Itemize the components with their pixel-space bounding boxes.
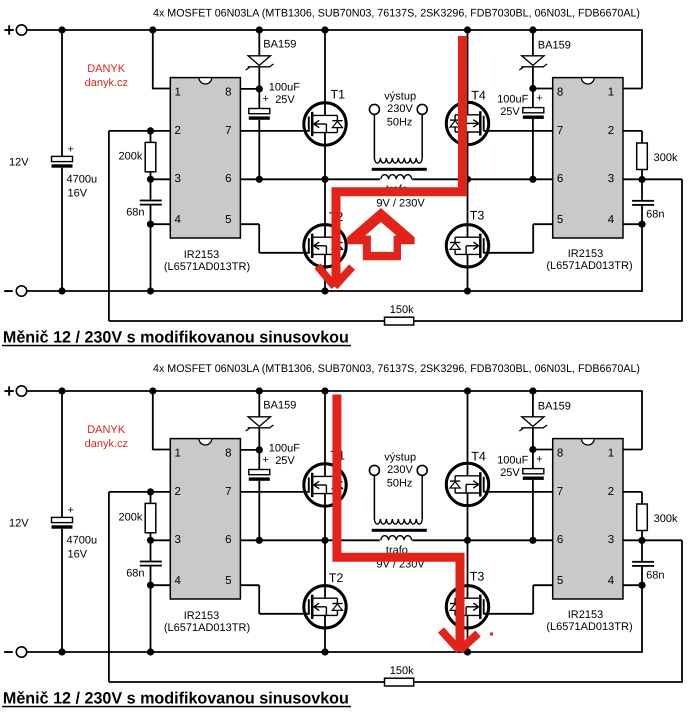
svg-text:(L6571AD013TR): (L6571AD013TR) [164, 622, 250, 634]
node top rail / T4 drain B [464, 387, 471, 394]
svg-text:IR2153: IR2153 [184, 610, 219, 622]
svg-text:8: 8 [557, 87, 563, 99]
wire pin3 right IC B [623, 539, 682, 541]
svg-text:3: 3 [175, 173, 181, 185]
svg-text:T4: T4 [471, 450, 486, 464]
svg-text:230V: 230V [387, 103, 413, 115]
wire BA159 right anode B [532, 391, 534, 417]
capacitor C 68n right B [632, 561, 654, 567]
wire pin3 left IC B [151, 539, 171, 541]
node pin4 / 68n A [147, 221, 154, 228]
diode D BA159 right B [519, 417, 547, 431]
wire T1 source A [324, 133, 326, 180]
node pin8 right / diode / 100uF B [529, 446, 536, 453]
wire secondary left leg A [373, 114, 375, 158]
node pin4 right / 68n A [638, 221, 645, 228]
svg-text:1: 1 [608, 448, 614, 460]
svg-text:68n: 68n [126, 207, 144, 219]
node top rail / BA159 right B [529, 387, 536, 394]
wire 200k bottom lead A [150, 172, 152, 180]
diode D BA159 left A [246, 56, 274, 70]
svg-text:8: 8 [557, 448, 563, 460]
wire battery column bottom B [61, 529, 63, 652]
wire 100uF right bottom lead B [532, 480, 534, 540]
node pin2 / 200k B [147, 488, 154, 495]
wire 68n top lead left B [150, 540, 152, 560]
wire pin1 right IC to rail A [623, 30, 642, 89]
wire secondary right leg A [421, 114, 423, 158]
node pin8 left / diode / 100uF A [256, 85, 263, 92]
wire top +12V rail B [27, 390, 643, 392]
wire T1 source B [324, 494, 326, 541]
wire 100uF right bottom lead A [532, 119, 534, 179]
svg-text:6: 6 [557, 534, 563, 546]
node top rail / pin1 column B [149, 387, 156, 394]
svg-text:IR2153: IR2153 [184, 249, 219, 261]
svg-text:100uF: 100uF [269, 82, 300, 94]
svg-text:+: + [536, 453, 542, 465]
svg-text:4: 4 [175, 214, 182, 226]
node bottom rail / T3 source B [464, 648, 471, 655]
transistor T1 MOSFET B [304, 464, 346, 506]
resistor R 300k A [637, 143, 648, 170]
svg-text:T2: T2 [329, 571, 344, 585]
wire T2 source B [324, 615, 326, 652]
svg-text:25V: 25V [500, 106, 520, 118]
transistor T3 MOSFET A [446, 225, 488, 267]
svg-text:danyk.cz: danyk.cz [85, 438, 128, 450]
svg-text:200k: 200k [119, 511, 143, 523]
node mid rail / T1 T2 A [321, 176, 328, 183]
svg-text:230V: 230V [387, 464, 413, 476]
node top rail / BA159 left B [256, 387, 263, 394]
svg-text:50Hz: 50Hz [387, 116, 413, 128]
svg-text:6: 6 [557, 173, 563, 185]
svg-text:T3: T3 [470, 569, 485, 583]
wire BA159 left cathode A [258, 67, 260, 109]
svg-text:3: 3 [175, 534, 181, 546]
svg-text:4: 4 [175, 575, 182, 587]
wire T2 drain A [324, 179, 326, 237]
transformer TR secondary winding A [374, 158, 422, 163]
svg-text:BA159: BA159 [263, 39, 296, 51]
wire pin1 left IC to rail B [153, 391, 171, 450]
node mid rail / 100uF right A [529, 176, 536, 183]
svg-text:16V: 16V [68, 549, 88, 561]
transistor T4 MOSFET B [446, 463, 488, 505]
op-amp driver IC IR2153 right A [553, 78, 623, 238]
wire mid rail right segment A [412, 178, 552, 180]
resistor R 200k B [145, 503, 156, 532]
node bottom rail / battery A [58, 287, 65, 294]
terminal output right A [417, 104, 427, 114]
svg-text:3: 3 [608, 534, 614, 546]
svg-text:2: 2 [175, 486, 181, 498]
node bottom rail / T3 source A [464, 287, 471, 294]
svg-text:7: 7 [225, 486, 231, 498]
svg-text:6: 6 [225, 173, 231, 185]
wire pin4 column to bottom rail A [150, 224, 152, 291]
capacitor C 100uF right A [523, 108, 544, 119]
svg-text:1: 1 [175, 87, 181, 99]
svg-text:68n: 68n [646, 570, 664, 582]
svg-text:+: + [68, 505, 74, 517]
wire T1 drain A [324, 30, 326, 115]
capacitor C 68n left B [140, 561, 162, 567]
wire pin4 right IC A [623, 223, 642, 225]
svg-text:4700u: 4700u [67, 174, 98, 186]
svg-text:150k: 150k [390, 304, 414, 316]
node pin3 / 200k / 68n B [147, 537, 154, 544]
node top rail / T1 drain B [321, 387, 328, 394]
wire 68n right bottom lead B [641, 567, 643, 585]
wire BA159 left anode A [258, 30, 260, 56]
svg-text:+: + [68, 144, 74, 156]
wire T2 source A [324, 254, 326, 291]
capacitor C 100uF left B [249, 470, 270, 481]
wire 150k row right B [414, 681, 683, 683]
wire right edge vertical A [681, 179, 683, 321]
wire bottom 0V rail A [27, 290, 643, 292]
wire 200k top lead B [150, 492, 152, 504]
node bottom rail / pin4 column A [147, 287, 154, 294]
node pin8 left / diode / 100uF B [256, 446, 263, 453]
svg-text:300k: 300k [654, 513, 678, 525]
wire pin8 left IC B [240, 449, 259, 451]
svg-text:8: 8 [225, 87, 231, 99]
node pin4 right / 68n B [638, 582, 645, 589]
wire pin3 right IC A [623, 178, 682, 180]
svg-text:68n: 68n [646, 209, 664, 221]
svg-text:Měnič 12 / 230V s modifikovano: Měnič 12 / 230V s modifikovanou sinusovk… [3, 690, 349, 708]
wire 200k top lead A [150, 131, 152, 143]
wire T3 source B [467, 615, 469, 652]
wire pin1 right IC to rail B [623, 391, 642, 450]
wire pin2 left IC B [109, 491, 170, 493]
svg-text:+: + [262, 93, 268, 105]
node mid rail / T4 T3 B [464, 537, 471, 544]
node pin2 / 200k A [147, 127, 154, 134]
node pin8 right / diode / 100uF A [529, 85, 536, 92]
svg-text:Měnič 12 / 230V s modifikovano: Měnič 12 / 230V s modifikovanou sinusovk… [3, 329, 349, 347]
wire mid rail right segment B [412, 539, 552, 541]
node top rail / pin1 column A [149, 26, 156, 33]
svg-text:(L6571AD013TR): (L6571AD013TR) [546, 260, 632, 272]
svg-text:50Hz: 50Hz [387, 477, 413, 489]
node mid rail / T1 T2 B [321, 537, 328, 544]
svg-text:8: 8 [225, 448, 231, 460]
op-amp driver IC IR2153 left A [170, 78, 240, 238]
transistor T2 MOSFET B [304, 586, 346, 628]
wire 150k row right A [414, 320, 683, 322]
wire pin7 right IC to T4 gate B [483, 491, 552, 493]
node pin4 / 68n B [147, 582, 154, 589]
wire 200k bottom lead B [150, 533, 152, 541]
wire pin4 right column to bottom rail A [641, 224, 643, 292]
svg-text:5: 5 [557, 575, 563, 587]
wire feedback column x109 A [108, 131, 110, 321]
node mid rail / T4 T3 A [464, 176, 471, 183]
wire pin5 right IC to T3 gate B [483, 585, 552, 614]
svg-text:DANYK: DANYK [87, 63, 126, 75]
svg-text:5: 5 [225, 575, 231, 587]
capacitor C 100uF right B [523, 469, 544, 480]
node pin3 right / 300k / 68n A [638, 176, 645, 183]
node top rail / battery B [58, 387, 65, 394]
svg-text:DANYK: DANYK [87, 424, 126, 436]
svg-text:4x MOSFET 06N03LA (MTB1306, SU: 4x MOSFET 06N03LA (MTB1306, SUB70N03, 76… [153, 7, 640, 19]
svg-text:100uF: 100uF [269, 443, 300, 455]
node top rail / BA159 left A [256, 26, 263, 33]
wire pin7 left IC to T1 gate B [240, 491, 309, 493]
wire pin5 right IC to T3 gate A [483, 224, 552, 253]
terminal - (12V input) B [4, 647, 27, 657]
wire T1 drain B [324, 391, 326, 476]
capacitor C 4700u/16V A [52, 156, 73, 167]
red stray mark B [490, 633, 493, 636]
node bottom rail / T2 source B [321, 648, 328, 655]
svg-text:výstup: výstup [384, 451, 416, 463]
wire T3 source A [467, 254, 469, 291]
wire pin8 right IC B [533, 449, 553, 451]
terminal output left A [369, 104, 379, 114]
wire pin7 right IC to T4 gate A [483, 130, 552, 132]
svg-text:T4: T4 [471, 89, 486, 103]
transformer TR primary winding B [381, 536, 412, 541]
wire mid rail left segment A [240, 178, 379, 180]
red current path arrow (T4 to T2) A [318, 36, 463, 287]
wire T2 drain B [324, 540, 326, 598]
terminal + (12V input) B [4, 386, 26, 396]
wire pin2 right IC to 300k B [623, 492, 642, 504]
wire pin4 right column to bottom rail B [641, 585, 643, 653]
transformer TR core B [372, 529, 427, 532]
wire pin1 left IC to rail A [153, 30, 171, 89]
wire battery column top B [61, 391, 63, 517]
node top rail / battery A [58, 26, 65, 33]
svg-text:12V: 12V [9, 157, 29, 169]
wire BA159 left cathode B [258, 428, 260, 470]
transistor T1 MOSFET A [304, 103, 346, 145]
wire 68n right bottom lead A [641, 206, 643, 224]
node bottom rail / battery B [58, 648, 65, 655]
capacitor C 68n right A [632, 200, 654, 206]
wire 68n bottom lead left B [150, 567, 152, 586]
wire pin3 left IC A [151, 178, 171, 180]
svg-text:100uF: 100uF [497, 93, 528, 105]
svg-text:výstup: výstup [384, 90, 416, 102]
capacitor C 68n left A [140, 200, 162, 206]
svg-text:T1: T1 [331, 87, 346, 101]
svg-text:(L6571AD013TR): (L6571AD013TR) [164, 261, 250, 273]
svg-text:300k: 300k [654, 152, 678, 164]
red current path arrow (T1 to T3) B [337, 395, 478, 651]
wire 100uF left bottom lead B [258, 481, 260, 541]
wire pin8 right IC A [533, 88, 553, 90]
wire 150k row left A [109, 320, 385, 322]
svg-text:25V: 25V [275, 455, 295, 467]
node top rail / T4 drain A [464, 26, 471, 33]
wire 300k bottom lead B [641, 531, 643, 541]
diode D BA159 left B [246, 417, 274, 431]
svg-text:7: 7 [557, 125, 563, 137]
wire battery column top A [61, 30, 63, 156]
svg-text:T3: T3 [470, 208, 485, 222]
wire 68n bottom lead left A [150, 206, 152, 225]
svg-text:2: 2 [608, 486, 614, 498]
svg-text:4: 4 [608, 214, 615, 226]
node bottom rail / T2 source A [321, 287, 328, 294]
svg-text:4700u: 4700u [67, 535, 98, 547]
svg-text:150k: 150k [390, 665, 414, 677]
transistor T4 MOSFET A [446, 102, 488, 144]
wire T4 source A [467, 132, 469, 179]
svg-text:7: 7 [225, 125, 231, 137]
svg-text:6: 6 [225, 534, 231, 546]
wire secondary right leg B [421, 475, 423, 519]
transistor T2 MOSFET A [304, 225, 346, 267]
wire pin4 left IC B [151, 584, 171, 586]
diode D BA159 right A [519, 56, 547, 70]
svg-text:7: 7 [557, 486, 563, 498]
wire pin2 right IC to 300k A [623, 131, 642, 143]
transformer TR core A [372, 168, 427, 171]
resistor R 150k B [385, 678, 414, 686]
wire bottom 0V rail B [27, 651, 643, 653]
red block arrow up (current direction) A [347, 208, 414, 260]
wire pin4 left IC A [151, 223, 171, 225]
svg-text:(L6571AD013TR): (L6571AD013TR) [546, 621, 632, 633]
caption Menic 12/230V B [2, 690, 351, 708]
op-amp driver IC IR2153 left B [170, 439, 240, 599]
terminal output right B [417, 465, 427, 475]
node mid rail / 100uF right B [529, 537, 536, 544]
transformer TR primary winding A [381, 175, 412, 180]
svg-text:IR2153: IR2153 [568, 248, 603, 260]
wire 68n right top lead B [641, 541, 643, 561]
terminal - (12V input) A [4, 286, 27, 296]
svg-text:1: 1 [175, 448, 181, 460]
wire pin8 left IC A [240, 88, 259, 90]
svg-text:16V: 16V [68, 188, 88, 200]
capacitor C 100uF left A [249, 109, 270, 120]
caption Menic 12/230V A [2, 329, 351, 347]
svg-text:danyk.cz: danyk.cz [85, 77, 128, 89]
svg-text:9V / 230V: 9V / 230V [376, 198, 425, 210]
wire 300k bottom lead A [641, 170, 643, 180]
svg-text:68n: 68n [126, 568, 144, 580]
node mid rail / 100uF left B [256, 537, 263, 544]
svg-text:100uF: 100uF [497, 454, 528, 466]
wire BA159 right cathode B [532, 428, 534, 469]
svg-text:BA159: BA159 [263, 400, 296, 412]
svg-text:25V: 25V [500, 467, 520, 479]
wire BA159 right anode A [532, 30, 534, 56]
wire right edge vertical B [681, 540, 683, 682]
transformer TR secondary winding B [374, 519, 422, 524]
node top rail / BA159 right A [529, 26, 536, 33]
svg-text:4x MOSFET 06N03LA (MTB1306, SU: 4x MOSFET 06N03LA (MTB1306, SUB70N03, 76… [153, 363, 640, 375]
capacitor C 4700u/16V B [52, 517, 73, 528]
wire feedback column x109 B [108, 492, 110, 682]
wire pin4 column to bottom rail B [150, 585, 152, 652]
wire 150k row left B [109, 681, 385, 683]
op-amp driver IC IR2153 right B [553, 439, 623, 599]
wire T4 source B [467, 493, 469, 540]
resistor R 300k B [637, 504, 648, 531]
svg-text:200k: 200k [119, 150, 143, 162]
svg-text:+: + [536, 92, 542, 104]
transistor T3 MOSFET B [446, 586, 488, 628]
wire T4 drain B [467, 391, 469, 476]
svg-text:2: 2 [175, 125, 181, 137]
svg-text:5: 5 [557, 214, 563, 226]
svg-text:BA159: BA159 [538, 40, 571, 52]
node mid rail / 100uF left A [256, 176, 263, 183]
wire 68n top lead left A [150, 179, 152, 199]
wire mid rail left segment B [240, 539, 379, 541]
wire T3 drain A [467, 179, 469, 237]
wire top +12V rail A [27, 29, 643, 31]
terminal output left B [369, 465, 379, 475]
node top rail / T1 drain A [321, 26, 328, 33]
wire pin5 left IC to T2 gate A [240, 224, 309, 253]
svg-text:BA159: BA159 [538, 401, 571, 413]
svg-text:5: 5 [225, 214, 231, 226]
wire BA159 left anode B [258, 391, 260, 417]
svg-text:4: 4 [608, 575, 615, 587]
wire pin5 left IC to T2 gate B [240, 585, 309, 614]
svg-text:12V: 12V [9, 518, 29, 530]
terminal + (12V input) A [4, 25, 26, 35]
node pin3 right / 300k / 68n B [638, 537, 645, 544]
node bottom rail / pin4 column B [147, 648, 154, 655]
resistor R 200k A [145, 142, 156, 171]
wire BA159 right cathode A [532, 67, 534, 108]
wire secondary left leg B [373, 475, 375, 519]
svg-text:1: 1 [608, 87, 614, 99]
wire T4 drain A [467, 30, 469, 115]
wire pin7 left IC to T1 gate A [240, 130, 309, 132]
svg-text:2: 2 [608, 125, 614, 137]
wire pin4 right IC B [623, 584, 642, 586]
node pin3 / 200k / 68n A [147, 176, 154, 183]
wire T3 drain B [467, 540, 469, 598]
wire 68n right top lead A [641, 180, 643, 200]
wire pin2 left IC A [109, 130, 170, 132]
svg-text:+: + [262, 454, 268, 466]
svg-text:3: 3 [608, 173, 614, 185]
resistor R 150k A [385, 317, 414, 325]
svg-text:IR2153: IR2153 [568, 609, 603, 621]
wire battery column bottom A [61, 168, 63, 291]
wire 100uF left bottom lead A [258, 120, 260, 180]
svg-text:25V: 25V [275, 94, 295, 106]
